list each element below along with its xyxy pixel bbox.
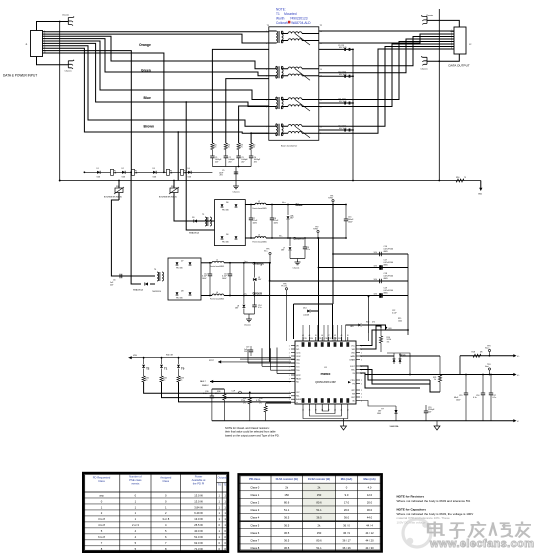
- svg-text:PD Requested: PD Requested: [93, 476, 111, 480]
- wire Orange down to STRT: [269, 263, 271, 362]
- svg-text:75: 75: [214, 147, 216, 149]
- svg-text:AGND: AGND: [296, 398, 302, 401]
- svg-text:Class 6: Class 6: [250, 531, 259, 535]
- svg-text:36.5: 36.5: [316, 516, 322, 520]
- svg-text:R16: R16: [456, 177, 459, 179]
- svg-text:51.1: 51.1: [284, 508, 290, 512]
- svg-text:Chassis: Chassis: [426, 15, 433, 17]
- diode D16 up: [399, 353, 407, 364]
- svg-text:100V: 100V: [274, 222, 279, 224]
- TVS diode D9 SMAJ58CA: [194, 219, 197, 222]
- svg-text:1: 1: [289, 349, 290, 351]
- wire to chassis ground of termination: [235, 167, 237, 185]
- svg-text:100V: 100V: [253, 222, 258, 224]
- svg-text:GND: GND: [377, 413, 382, 415]
- svg-text:PD class: PD class: [249, 477, 261, 481]
- svg-text:CLS1 resistor (Ω): CLS1 resistor (Ω): [276, 477, 298, 481]
- svg-text:Power: Power: [195, 474, 203, 478]
- svg-text:62.0 W: 62.0 W: [194, 541, 203, 545]
- svg-text:20.0: 20.0: [367, 501, 373, 505]
- capacitor C3 1000pF termination: [236, 156, 240, 158]
- wire spare line 2 to lower circuit: [43, 53, 164, 172]
- svg-text:SOUT: SOUT: [350, 366, 355, 368]
- IC U1 top pins: [302, 337, 304, 341]
- svg-text:SMAJ58A: SMAJ58A: [390, 425, 400, 428]
- wire GND rail bottom: [212, 419, 519, 423]
- wire T1 output 4 to J2: [319, 39, 454, 73]
- diode D4: [188, 171, 191, 174]
- svg-text:36.5: 36.5: [284, 546, 290, 550]
- svg-text:HN 080: HN 080: [222, 242, 229, 244]
- chassis ground top-right: [421, 16, 427, 25]
- svg-text:Vout: Vout: [485, 365, 489, 368]
- test point TP2: [313, 227, 319, 239]
- wire right-of-chip bus 3: [368, 333, 370, 341]
- svg-text:51.1: 51.1: [316, 508, 322, 512]
- test point TP1: [328, 196, 334, 206]
- svg-text:36.5: 36.5: [284, 523, 290, 527]
- svg-text:HN 080: HN 080: [176, 298, 183, 300]
- svg-text:C38: C38: [334, 338, 337, 340]
- svg-text:DATA & POWER INPUT: DATA & POWER INPUT: [3, 74, 37, 78]
- wire pair1 line B (Orange-): [43, 34, 269, 43]
- capacitor C6 1nF 2kV: [120, 274, 122, 278]
- svg-text:14: 14: [320, 69, 322, 71]
- svg-text:0805: 0805: [384, 251, 388, 253]
- svg-text:44 / 30: 44 / 30: [365, 546, 374, 550]
- diode bridge D6 diodes: [221, 202, 238, 244]
- note T1 mounting (blue): [276, 8, 311, 26]
- wire right-of-chip bus 2: [360, 326, 381, 349]
- wire T1 to chip: [162, 382, 292, 398]
- svg-text:Class: Class: [98, 479, 105, 483]
- svg-text:C36: C36: [325, 338, 328, 340]
- svg-text:D6: D6: [226, 202, 228, 204]
- LED DL1: [346, 322, 386, 331]
- ground bridge B caps: [244, 314, 252, 327]
- diode bridge D7 diodes: [176, 261, 192, 300]
- svg-text:R30: R30: [166, 354, 169, 356]
- svg-text:SW: SW: [352, 393, 355, 395]
- svg-text:80.6: 80.6: [316, 538, 322, 542]
- wire T1 secondary tap 3 with RC snubber: [319, 102, 353, 104]
- svg-text:100V: 100V: [456, 399, 461, 401]
- svg-text:Vin-: Vin-: [279, 236, 283, 238]
- svg-text:Min (mA): Min (mA): [341, 477, 353, 481]
- svg-text:13.0 W: 13.0 W: [194, 493, 203, 497]
- svg-text:1%: 1%: [243, 402, 246, 404]
- svg-text:Class 3: Class 3: [250, 508, 259, 512]
- svg-text:10%: 10%: [374, 294, 378, 296]
- svg-text:C39: C39: [338, 338, 341, 340]
- wire J2 shield bottom: [427, 54, 459, 61]
- svg-text:0805: 0805: [384, 293, 388, 295]
- svg-text:L6: L6: [216, 292, 218, 294]
- resistor R14 24.9k: [379, 327, 392, 352]
- svg-text:1k: 1k: [434, 379, 436, 381]
- svg-text:Blue: Blue: [144, 96, 151, 100]
- capacitor C30 class network: [203, 389, 224, 421]
- svg-text:D8: D8: [181, 291, 183, 293]
- svg-text:75: 75: [253, 147, 255, 149]
- zener D10 bridge A: [287, 204, 295, 239]
- capacitor C16 0.47uF 100V: [380, 252, 382, 256]
- transistor T2: [142, 357, 150, 376]
- ground triangle under chip: [434, 421, 440, 430]
- wire left branch to bridge B 1: [111, 200, 133, 276]
- svg-text:49: 49: [341, 335, 343, 337]
- svg-text:49.9: 49.9: [215, 393, 219, 395]
- wire Brown down to chip top: [318, 238, 320, 341]
- svg-text:based on the output power and: based on the output power and Type of th…: [225, 433, 280, 437]
- svg-text:Chassis: Chassis: [293, 268, 300, 270]
- svg-text:R18: R18: [472, 352, 475, 354]
- svg-text:Wurth 7490220123: Wurth 7490220123: [276, 17, 308, 21]
- capacitor C16b output: [473, 374, 485, 421]
- svg-text:R13: R13: [366, 322, 369, 324]
- wire chip left pin extensions: [240, 348, 295, 374]
- wire VOUT+ rail: [360, 354, 520, 358]
- wire left branch to bridge B 2: [131, 172, 133, 284]
- svg-text:D9: D9: [192, 217, 194, 219]
- svg-text:1: 1: [289, 399, 290, 401]
- note class resistors: [225, 426, 280, 437]
- svg-text:0.1u: 0.1u: [203, 393, 207, 395]
- svg-text:2 or 3: 2 or 3: [132, 523, 139, 527]
- svg-text:Class 4: Class 4: [250, 516, 259, 520]
- svg-text:Max (mA): Max (mA): [363, 477, 375, 481]
- svg-text:100k: 100k: [398, 320, 402, 322]
- wire T1 output 8 to J2: [319, 49, 454, 133]
- test point TP3: [485, 346, 491, 357]
- svg-text:HN 080: HN 080: [222, 210, 229, 212]
- svg-text:44.0: 44.0: [367, 516, 373, 520]
- svg-text:36 / 9: 36 / 9: [343, 531, 350, 535]
- wire pair3 line B (Blue-): [43, 43, 269, 106]
- wire bridge A lower caps rail: [290, 258, 305, 260]
- chassis ground bottom-left: [68, 60, 74, 69]
- transistor T1: [160, 357, 168, 376]
- wire T1 secondary tap 1 with RC snubber: [319, 48, 353, 50]
- svg-text:Coilcraft WA8704-ALD: Coilcraft WA8704-ALD: [276, 21, 311, 25]
- svg-text:C15: C15: [459, 395, 462, 397]
- svg-text:77?: 77?: [381, 409, 384, 411]
- svg-text:40.0 W: 40.0 W: [194, 529, 203, 533]
- wire pair3 line A (Blue+): [43, 41, 269, 100]
- svg-text:Class 5: Class 5: [250, 523, 259, 527]
- capacitor C8 bridge A filter: [270, 204, 279, 239]
- resistor R32: [160, 376, 167, 382]
- svg-text:CLS2 resistor (Ω): CLS2 resistor (Ω): [308, 477, 330, 481]
- svg-text:SMAJ58CA: SMAJ58CA: [189, 232, 200, 235]
- wire pair2 line B (Green-): [43, 39, 269, 76]
- svg-text:TP_Vin: TP_Vin: [281, 286, 287, 288]
- svg-text:T0: T0: [181, 367, 185, 371]
- svg-text:Class 8: Class 8: [250, 546, 259, 550]
- svg-text:Class: Class: [162, 479, 169, 483]
- wire vertical from J2 shield down: [438, 9, 440, 181]
- svg-text:12.0: 12.0: [367, 493, 373, 497]
- wire chip right connections: [360, 366, 430, 380]
- wire J1 shield top: [37, 22, 69, 31]
- wire FAULT to chip: [210, 381, 291, 383]
- svg-text:DATA OUTPUT: DATA OUTPUT: [449, 63, 470, 67]
- svg-text:100V: 100V: [348, 221, 353, 223]
- fuse F1: [111, 169, 114, 175]
- svg-text:30.0: 30.0: [367, 508, 373, 512]
- svg-text:LED: LED: [350, 326, 354, 328]
- svg-text:T3: T3: [202, 214, 204, 216]
- inductor L6 ferrite bead: [201, 292, 408, 301]
- svg-text:C35: C35: [318, 338, 321, 340]
- svg-text:Class 2: Class 2: [250, 501, 259, 505]
- svg-text:25.5 W: 25.5 W: [194, 523, 203, 527]
- svg-text:150: 150: [317, 493, 322, 497]
- svg-text:D14: D14: [303, 308, 306, 310]
- connector J2 DATA OUTPUT: [454, 27, 466, 54]
- capacitor C1 1000pF termination: [210, 156, 214, 158]
- fuse F4: [181, 169, 184, 175]
- svg-text:KA/BLK: KA/BLK: [202, 384, 209, 387]
- varistor RV2 BOURNS: [159, 180, 179, 200]
- svg-text:4.0: 4.0: [368, 485, 372, 489]
- wire T1 secondary tap 2 with RC snubber: [319, 75, 353, 77]
- wire diode pair top link: [387, 353, 410, 375]
- capacitor C15 output: [454, 374, 468, 421]
- svg-text:10%: 10%: [374, 266, 378, 268]
- svg-text:D4: D4: [188, 168, 190, 170]
- wire rail turn down to gnd arrow: [478, 181, 483, 196]
- diode bridge D6 outline: [215, 200, 246, 246]
- inductor L5 ferrite bead: [245, 235, 346, 244]
- svg-text:Green: Green: [141, 69, 151, 73]
- capacitor C4 1000pF termination: [249, 156, 253, 158]
- svg-text:1: 1: [289, 359, 290, 361]
- svg-text:9.0: 9.0: [345, 493, 349, 497]
- watermark chinese characters: [428, 522, 531, 539]
- capacitor C9 below brown: [303, 237, 310, 258]
- fuse F3: [167, 169, 170, 175]
- resistor R17 on VOUT+: [460, 352, 483, 375]
- svg-text:CTRL: CTRL: [350, 380, 354, 382]
- diode D2: [122, 171, 125, 174]
- svg-text:Class 0: Class 0: [250, 485, 259, 489]
- svg-text:PM8800: PM8800: [321, 372, 331, 376]
- svg-text:3.84 W: 3.84 W: [194, 505, 203, 509]
- svg-text:FAULT: FAULT: [200, 380, 207, 383]
- svg-text:Ferrite bead 0805: Ferrite bead 0805: [253, 207, 267, 210]
- resistor R36 class network: [215, 389, 226, 421]
- svg-text:150: 150: [317, 531, 322, 535]
- svg-text:1k: 1k: [180, 380, 182, 382]
- svg-text:LL4148: LL4148: [303, 315, 309, 317]
- svg-text:T1: T1: [164, 367, 168, 371]
- wire T1 output 1 to J2: [319, 30, 454, 32]
- svg-text:L2: L2: [258, 201, 260, 203]
- wire T1 center tap 4: [251, 133, 269, 143]
- capacitor C18 0.47uF 100V: [380, 279, 382, 283]
- svg-text:13.0 W: 13.0 W: [194, 517, 203, 521]
- svg-text:4 to 8: 4 to 8: [98, 523, 105, 527]
- IC U1 PM8800 outline: [295, 341, 356, 404]
- svg-text:Class 1: Class 1: [250, 493, 259, 497]
- resistor R1 75 termination: [211, 143, 214, 150]
- wire kelvin loop right: [430, 380, 440, 392]
- svg-text:1k: 1k: [145, 380, 147, 382]
- svg-text:C37: C37: [329, 338, 332, 340]
- resistor R4 75 termination: [250, 143, 253, 150]
- wire T1 output 7 to J2: [319, 47, 454, 127]
- svg-text:13.0 W: 13.0 W: [194, 499, 203, 503]
- wire chip bottom nested returns: [303, 408, 348, 424]
- note resistors bottom-right: [397, 495, 471, 503]
- chassis ground bottom-right2: [421, 56, 427, 65]
- svg-text:any: any: [99, 494, 104, 497]
- chassis ground top-left: [68, 17, 74, 26]
- svg-text:17.0: 17.0: [344, 501, 350, 505]
- svg-text:the PD PI: the PD PI: [193, 482, 205, 486]
- svg-text:NOTE:: NOTE:: [276, 8, 286, 12]
- svg-text:T4: T4: [154, 269, 156, 271]
- svg-text:SMAJ58CA: SMAJ58CA: [133, 289, 144, 292]
- wire branch to bridge A 2: [186, 212, 188, 230]
- transformer T1 outline: [269, 27, 319, 141]
- svg-text:0805: 0805: [384, 278, 388, 280]
- diode D3: [153, 171, 156, 174]
- TVS diode D12 SMAJ58CA: [133, 282, 155, 291]
- svg-text:Chassis: Chassis: [65, 71, 72, 73]
- TVS D17 SMAJ58A: [360, 401, 399, 428]
- svg-text:44 / 4: 44 / 4: [366, 523, 373, 527]
- IC U1 bottom pins: [302, 404, 304, 408]
- zener D18 between orange and green: [253, 262, 262, 297]
- svg-text:1%: 1%: [259, 402, 262, 404]
- svg-text:STRT: STRT: [296, 375, 300, 377]
- svg-text:44 / 20: 44 / 20: [365, 538, 374, 542]
- svg-text:nc: nc: [296, 402, 298, 404]
- wire Blue down to chip top: [332, 205, 334, 305]
- ground chassis termination: [233, 184, 239, 189]
- fuse F2: [132, 169, 135, 175]
- J1 pin stubs: [43, 31, 47, 33]
- svg-text:Brown: Brown: [294, 237, 304, 241]
- wire bulk caps right rail: [407, 254, 409, 335]
- ground bridge A caps: [293, 259, 301, 270]
- wire CLP diamond: [232, 390, 292, 394]
- svg-text:Blue: Blue: [296, 203, 303, 207]
- svg-text:1k: 1k: [163, 380, 165, 382]
- resistor R31: [142, 376, 149, 382]
- svg-text:75: 75: [464, 177, 466, 179]
- table PD class assignment: [83, 473, 228, 552]
- svg-text:Number of: Number of: [129, 474, 142, 478]
- svg-text:Assigned: Assigned: [160, 476, 172, 480]
- wire pair2 line A (Green+): [43, 36, 269, 69]
- svg-text:BST: BST: [352, 397, 355, 399]
- note capacitors bottom-right: [397, 508, 474, 525]
- IC U1 right pins: [356, 345, 360, 347]
- svg-text:75: 75: [228, 147, 230, 149]
- wire pair1 line A (Orange+): [43, 31, 269, 33]
- svg-text:0.1u: 0.1u: [307, 249, 311, 251]
- svg-text:36.5: 36.5: [284, 516, 290, 520]
- svg-text:0.1u: 0.1u: [493, 397, 497, 399]
- wire chip top rect: [332, 304, 334, 339]
- svg-text:6 to 8: 6 to 8: [98, 535, 105, 539]
- wire T2 to chip: [144, 382, 291, 393]
- svg-text:475: 475: [372, 322, 375, 324]
- wire bulk cap line 1: [333, 205, 408, 255]
- transistor T0: [177, 357, 185, 376]
- wire right-of-chip bus 1: [360, 330, 408, 346]
- svg-text:T2: T2: [146, 367, 150, 371]
- svg-text:Brown: Brown: [144, 124, 155, 128]
- svg-text:D2: D2: [122, 168, 124, 170]
- svg-text:48: 48: [334, 335, 336, 337]
- svg-text:3 or 8: 3 or 8: [162, 517, 169, 521]
- svg-text:D6: D6: [226, 234, 228, 236]
- svg-text:36 / 17: 36 / 17: [342, 538, 351, 542]
- svg-text:50: 50: [347, 335, 349, 337]
- capacitor C19 2200pF 2kV: [424, 405, 435, 421]
- wire J2 shield top: [427, 20, 459, 27]
- wire T0 to chip: [179, 382, 292, 402]
- svg-text:744235510: 744235510: [152, 291, 161, 293]
- resistor R2 75 termination: [224, 143, 227, 150]
- diode D11 below brown: [281, 237, 291, 258]
- svg-text:RV2: RV2: [171, 186, 175, 188]
- svg-text:75: 75: [240, 147, 242, 149]
- svg-text:CLS2: CLS2: [296, 356, 300, 358]
- diode D15 up: [393, 353, 396, 364]
- wire termination common rail: [212, 166, 251, 168]
- wire STRT to chip: [209, 360, 291, 364]
- wire bridge B lower caps rail: [244, 313, 255, 315]
- svg-text:80.6: 80.6: [316, 501, 322, 505]
- wire left rail to protection row: [60, 180, 481, 182]
- svg-text:D7: D7: [181, 261, 183, 263]
- svg-text:0805: 0805: [384, 265, 388, 267]
- watermark elecfans logo: [403, 519, 431, 547]
- wire T1 output 2 to J2: [319, 34, 454, 43]
- svg-text:D1: D1: [97, 168, 99, 170]
- resistor R21 vertical: [400, 356, 442, 392]
- capacitor C7 bridge A filter: [249, 204, 258, 239]
- svg-text:36.5: 36.5: [284, 531, 290, 535]
- svg-text:V-: V-: [517, 421, 519, 423]
- resistor R38 4.75k: [256, 398, 291, 421]
- svg-text:46: 46: [321, 335, 323, 337]
- wire snubber common vertical: [352, 49, 354, 180]
- svg-text:Orange: Orange: [139, 43, 151, 47]
- svg-text:D3: D3: [153, 168, 155, 170]
- svg-text:26.0: 26.0: [344, 508, 350, 512]
- svg-text:3 to 8: 3 to 8: [98, 517, 105, 521]
- wire T1 center tap 3: [239, 106, 269, 143]
- svg-text:1: 1: [289, 352, 290, 354]
- svg-text:Outputs: Outputs: [217, 475, 227, 479]
- wire T1 secondary tap 4 with RC snubber: [319, 129, 353, 131]
- capacitor C15b across Vin: [344, 204, 354, 239]
- svg-text:QFN56-8X8X1-56P: QFN56-8X8X1-56P: [315, 381, 336, 384]
- svg-text:51.0 W: 51.0 W: [194, 535, 203, 539]
- svg-text:events: events: [131, 482, 140, 486]
- svg-text:Class 7: Class 7: [250, 538, 259, 542]
- svg-text:L1: L1: [216, 259, 218, 261]
- svg-text:0.1u: 0.1u: [258, 307, 262, 309]
- inductor L2 ferrite bead: [245, 201, 346, 210]
- diode D13 below green: [235, 262, 245, 314]
